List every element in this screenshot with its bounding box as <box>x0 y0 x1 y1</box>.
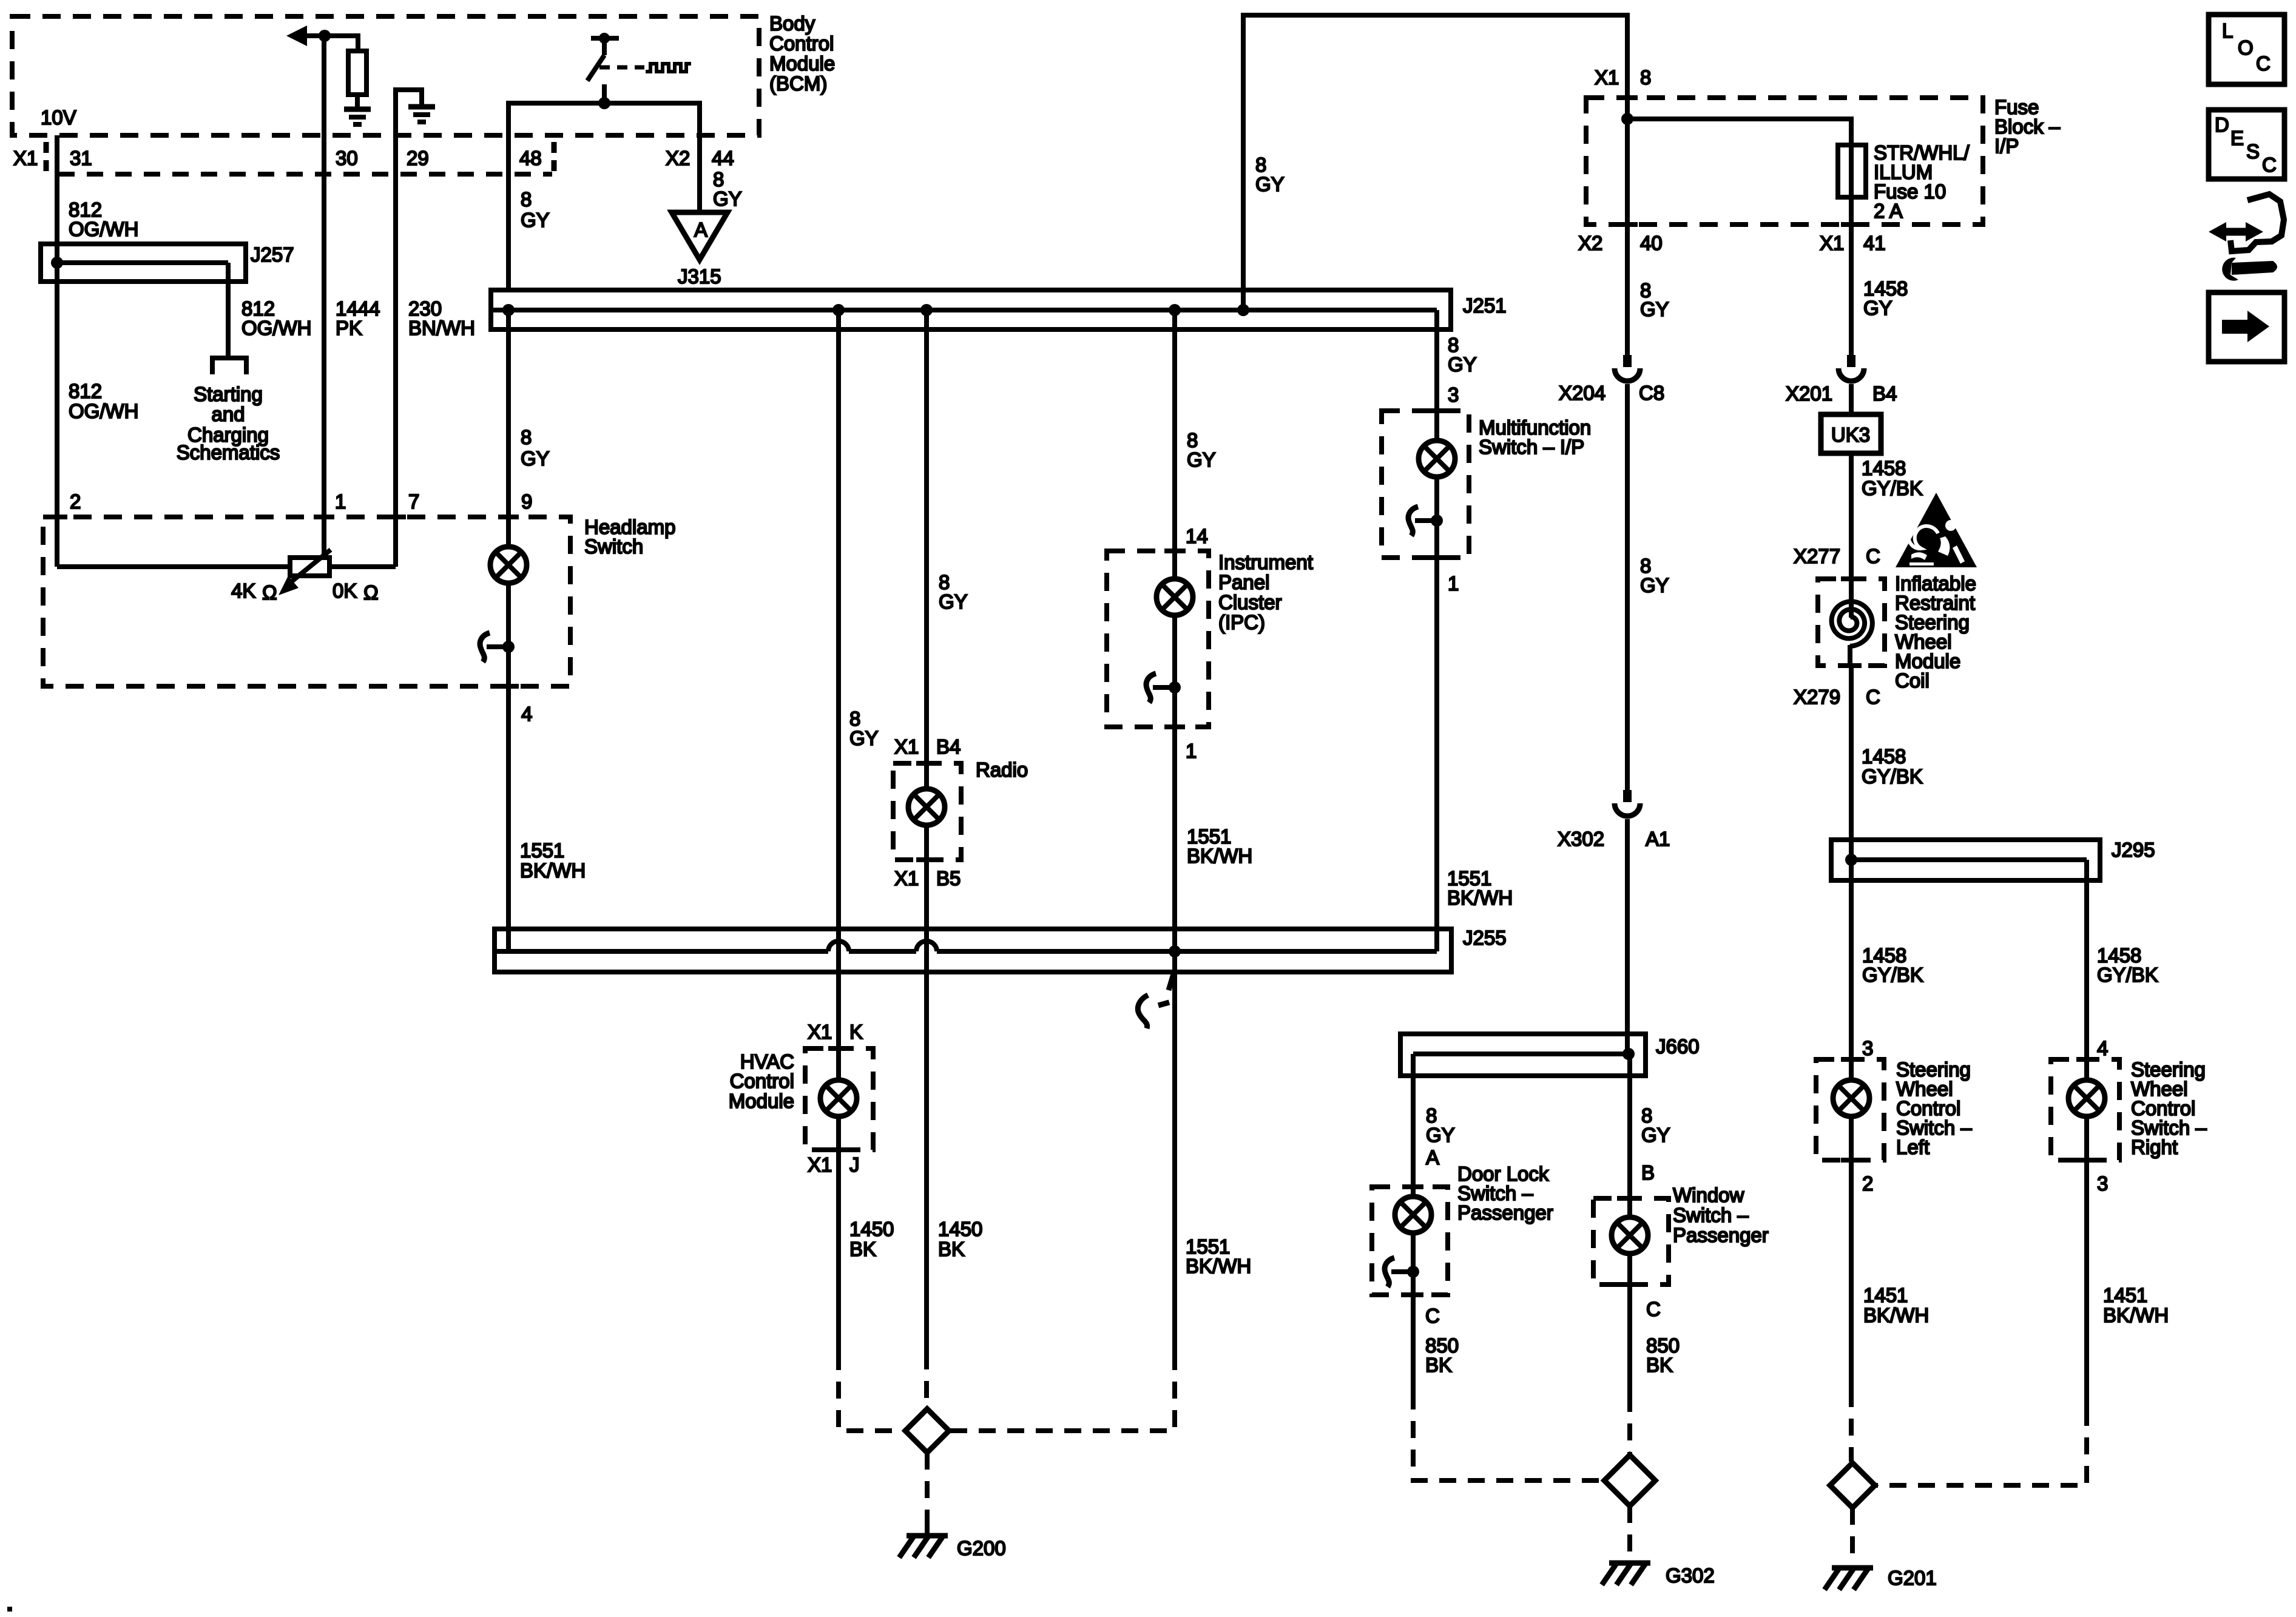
svg-text:GY: GY <box>521 447 550 470</box>
svg-text:GY/BK: GY/BK <box>1862 765 1923 788</box>
off-page bracket starting and charging <box>212 358 246 374</box>
svg-text:GY/BK: GY/BK <box>2097 964 2158 986</box>
svg-text:C: C <box>1425 1305 1440 1327</box>
dashed wire radio to G200 <box>924 1352 929 1408</box>
wire J251 to HVAC <box>836 310 841 1048</box>
wire label 1458 GY/BK lower <box>1862 745 1923 788</box>
icon repair jumper arrow and wrench <box>2209 194 2284 281</box>
svg-text:GY: GY <box>1640 574 1669 596</box>
label coil <box>1895 572 1976 692</box>
switch contact IPC <box>1146 673 1181 703</box>
wire label 230 BN/WH <box>408 297 475 339</box>
splice pack J251 <box>491 290 1451 329</box>
dashed wire HVAC to G200 <box>839 1353 904 1431</box>
HVAC pin labels X1 J <box>808 1153 860 1176</box>
svg-text:31: 31 <box>70 147 92 169</box>
pin ticks multifunction box <box>1427 411 1447 558</box>
svg-text:Switch: Switch <box>584 535 643 558</box>
svg-text:1458: 1458 <box>1862 457 1906 479</box>
svg-text:3: 3 <box>1448 383 1459 406</box>
svg-text:1458: 1458 <box>1862 745 1906 768</box>
wire fuse to X1 41 <box>1849 197 1854 355</box>
wire label 8 GY pin 48 <box>521 188 550 231</box>
svg-text:1451: 1451 <box>1863 1284 1908 1306</box>
icon DESC box <box>2209 110 2284 179</box>
svg-text:UK3: UK3 <box>1831 424 1870 446</box>
switch in BCM <box>587 33 619 103</box>
svg-text:GY: GY <box>713 187 742 210</box>
wire pin 29 to ground <box>396 90 422 174</box>
svg-text:1451: 1451 <box>2103 1284 2147 1306</box>
wire J660 to window switch <box>1625 1034 1630 1054</box>
Steering Wheel Control Switch Left dashed box <box>1816 1059 1884 1160</box>
ground in BCM pin 29 <box>408 107 435 122</box>
svg-text:4: 4 <box>2097 1037 2108 1059</box>
svg-text:(IPC): (IPC) <box>1218 611 1265 633</box>
svg-text:X1: X1 <box>808 1021 832 1043</box>
svg-text:C: C <box>1866 686 1880 708</box>
label Starting and Charging Schematics <box>177 383 280 464</box>
dashed wire IPC 1551 to G200 <box>950 1353 1175 1431</box>
wire resistor to ground <box>355 95 360 108</box>
wire potentiometer track <box>57 564 396 569</box>
wire resistor feed <box>356 33 360 51</box>
wire fuse block internal <box>1625 98 1630 224</box>
pin ticks IPC box <box>1164 551 1185 727</box>
wire label 8 GY window <box>1641 1104 1670 1146</box>
svg-text:1450: 1450 <box>849 1218 894 1240</box>
HVAC Control Module dashed box <box>805 1048 873 1150</box>
wire stub ground G200 <box>925 1522 930 1534</box>
lamp steering right <box>2068 1080 2105 1116</box>
svg-text:GY: GY <box>1640 298 1669 320</box>
lamp radio illumination <box>908 789 945 825</box>
splice contact hook under J255 <box>1138 972 1174 1028</box>
pin ticks headlamp box top <box>47 517 519 686</box>
wire pin 29 to headlamp pin 7 <box>393 174 398 567</box>
splice diamond G201 <box>1830 1463 1875 1508</box>
dashed wire window to G302 <box>1627 1395 1632 1454</box>
svg-text:812: 812 <box>69 380 102 402</box>
wire multifunction feed from J251 <box>1434 329 1439 411</box>
svg-text:GY: GY <box>849 727 879 749</box>
svg-text:BK/WH: BK/WH <box>1187 845 1252 867</box>
svg-text:K: K <box>849 1021 863 1043</box>
svg-text:Starting: Starting <box>194 383 263 405</box>
wire to pin 48 <box>506 101 511 289</box>
svg-text:Passenger: Passenger <box>1457 1201 1553 1224</box>
svg-text:Control: Control <box>730 1070 794 1092</box>
dashed wire G302 to ground <box>1627 1506 1632 1555</box>
chassis ground G302 <box>1602 1562 1650 1585</box>
svg-text:Ω: Ω <box>363 581 379 604</box>
Inflatable Restraint Steering Wheel Module Coil dashed box <box>1818 579 1885 666</box>
wire steering left stubs <box>1849 1059 1854 1080</box>
wire to fuse <box>1627 119 1851 145</box>
wire label 850 BK door lock <box>1425 1334 1459 1376</box>
wire lamp to contact <box>506 583 511 686</box>
splice pack J257 <box>41 244 246 282</box>
splice pack J255 <box>495 929 1451 972</box>
wire J660 to door lock switch <box>1411 1076 1416 1187</box>
wire label 1444 PK <box>336 297 380 339</box>
svg-text:X1: X1 <box>13 147 38 169</box>
svg-text:BN/WH: BN/WH <box>408 317 475 339</box>
svg-text:J: J <box>849 1153 860 1176</box>
node J660 window wire <box>1622 1048 1635 1060</box>
Multifunction Switch dashed box <box>1382 411 1469 558</box>
Window Switch dashed box <box>1593 1198 1669 1284</box>
wire window stubs <box>1627 1198 1632 1217</box>
svg-text:GY/BK: GY/BK <box>1862 964 1923 986</box>
wire to pin 44 <box>697 101 702 212</box>
svg-text:A1: A1 <box>1646 828 1670 850</box>
page corner dot <box>7 1607 12 1612</box>
label Window Switch Passenger <box>1673 1184 1769 1246</box>
svg-text:X277: X277 <box>1794 545 1840 567</box>
labels X302 A1 <box>1558 828 1670 850</box>
svg-text:2: 2 <box>70 490 81 513</box>
svg-text:Control: Control <box>769 32 834 55</box>
icon forward arrow box <box>2209 292 2284 362</box>
svg-text:GY: GY <box>939 590 968 613</box>
wire J295 to left steering switch <box>1849 860 1854 1059</box>
svg-text:GY: GY <box>1255 173 1285 195</box>
svg-text:X279: X279 <box>1794 686 1840 708</box>
svg-text:OG/WH: OG/WH <box>241 317 311 339</box>
svg-text:48: 48 <box>519 147 542 169</box>
label 0K ohm <box>333 579 379 604</box>
svg-text:and: and <box>211 403 245 425</box>
headlamp pin labels 2 1 7 9 <box>70 490 532 513</box>
svg-text:X201: X201 <box>1786 382 1832 405</box>
connector row dashed line <box>58 172 552 177</box>
svg-text:Left: Left <box>1896 1136 1930 1158</box>
svg-text:8: 8 <box>1640 66 1651 89</box>
wire label 812 OG/WH lower <box>69 380 138 422</box>
pin ticks window box <box>1617 1198 1638 1284</box>
resistor in BCM <box>348 51 366 95</box>
svg-text:O: O <box>2238 36 2254 59</box>
label steering left <box>1896 1058 1972 1158</box>
node J251 pin48 wire <box>502 304 515 316</box>
svg-text:GY: GY <box>521 209 550 231</box>
svg-text:X1: X1 <box>1595 66 1619 89</box>
pin ticks radio box <box>916 763 937 860</box>
svg-text:Switch –: Switch – <box>1673 1204 1749 1226</box>
connector row X1 labels <box>13 147 734 169</box>
wire door lock C to G302 <box>1411 1295 1416 1393</box>
svg-text:1450: 1450 <box>938 1218 982 1240</box>
inline connector X302 A1 <box>1615 790 1640 816</box>
wire J251 to IPC <box>1172 310 1177 551</box>
node J257 junction <box>51 257 63 269</box>
connector UK3 box <box>1821 414 1881 453</box>
dashed wire G200 diamond to ground <box>925 1453 930 1528</box>
HVAC pin labels X1 K <box>808 1021 863 1043</box>
wire label 1551 BK/WH multifunction <box>1447 867 1513 909</box>
svg-text:1: 1 <box>1186 740 1197 762</box>
wire window C to G302 <box>1627 1284 1632 1395</box>
svg-text:J255: J255 <box>1463 927 1507 949</box>
svg-text:BK: BK <box>1425 1354 1452 1376</box>
svg-text:9: 9 <box>521 490 532 513</box>
svg-text:Coil: Coil <box>1895 669 1930 692</box>
node fuse feed junction <box>1621 113 1633 125</box>
svg-text:J257: J257 <box>251 243 294 266</box>
Headlamp Switch dashed box <box>43 517 570 686</box>
fuse STR/WHL/ILLUM 2A <box>1838 145 1866 197</box>
wire coil to J295 <box>1849 666 1854 860</box>
svg-text:B4: B4 <box>936 735 961 758</box>
label Multifunction Switch I/P <box>1479 416 1591 458</box>
label 4K ohm <box>231 579 277 604</box>
wire label 8 GY HVAC <box>849 707 879 749</box>
chassis ground G200 <box>899 1534 948 1558</box>
wire label 812 OG/WH right <box>241 297 311 339</box>
Fuse Block I/P dashed box <box>1586 98 1983 224</box>
wire label 8 GY below X2 40 <box>1640 279 1669 320</box>
wire J251 to radio <box>924 310 929 763</box>
svg-text:X204: X204 <box>1559 382 1606 404</box>
label steering right <box>2131 1058 2207 1158</box>
wire IPC lamp stubs <box>1172 551 1177 579</box>
node J251 IPC tap <box>1169 304 1181 316</box>
svg-text:Right: Right <box>2131 1136 2178 1158</box>
radio pin labels X1 B4 <box>894 735 961 758</box>
wire label 8 GY pin 44 <box>713 168 742 210</box>
svg-text:C8: C8 <box>1639 382 1664 404</box>
svg-text:C: C <box>2262 154 2277 176</box>
svg-text:Ω: Ω <box>262 581 277 604</box>
Radio dashed box <box>893 763 961 860</box>
dashed wire G201 to ground <box>1850 1508 1855 1559</box>
dashed wire right steering to G201 <box>1876 1409 2087 1485</box>
pin ticks HVAC box <box>828 1048 849 1150</box>
svg-text:I/P: I/P <box>1994 135 2019 157</box>
inline connector X201 B4 <box>1838 355 1864 381</box>
svg-text:10V: 10V <box>41 106 76 129</box>
fuse block pin labels X1 8 <box>1595 66 1651 89</box>
lamp IPC illumination <box>1156 579 1193 615</box>
radio pin labels X1 B5 <box>894 867 961 890</box>
svg-text:Window: Window <box>1673 1184 1744 1206</box>
wire multifunction pin 1 to J255 right end <box>1434 558 1439 951</box>
svg-text:BK/WH: BK/WH <box>1447 886 1513 909</box>
wire label 1451 BK/WH left <box>1863 1284 1929 1326</box>
svg-text:OG/WH: OG/WH <box>69 400 138 422</box>
Body Control Module (BCM) dashed box <box>12 16 759 135</box>
wire 812 OG/WH to starting schematics <box>226 279 231 356</box>
wire pin 30 to headlamp pin 1 <box>322 36 326 558</box>
svg-text:GY: GY <box>1187 448 1216 471</box>
splice diamond G200 <box>905 1409 949 1453</box>
wire multifunction lamp stubs <box>1434 411 1439 441</box>
svg-text:BK: BK <box>938 1238 965 1260</box>
svg-text:Schematics: Schematics <box>177 441 280 464</box>
node J251 riser tap <box>1237 304 1249 316</box>
svg-text:1551: 1551 <box>520 839 564 862</box>
svg-text:14: 14 <box>1186 525 1208 547</box>
wire X302 to J660 <box>1625 819 1630 1034</box>
svg-text:Module: Module <box>769 52 835 75</box>
svg-text:44: 44 <box>712 147 734 169</box>
connector row separator dashes <box>44 142 49 172</box>
svg-text:C: C <box>1646 1298 1661 1320</box>
svg-text:BK: BK <box>849 1238 876 1260</box>
label Headlamp Switch <box>584 516 675 558</box>
svg-text:L: L <box>2222 19 2233 42</box>
svg-text:G200: G200 <box>957 1537 1006 1559</box>
fuse block pin labels X1 41 <box>1820 232 1886 254</box>
wire label 8 GY above pin 9 <box>521 426 550 470</box>
svg-text:Cluster: Cluster <box>1218 591 1282 613</box>
wire door lock stubs <box>1411 1187 1416 1197</box>
dashed wire door lock to G302 <box>1413 1393 1603 1480</box>
wire label 1551 BK/WH below J255 <box>1186 1235 1251 1277</box>
wire label 8 GY above X302 <box>1640 555 1669 596</box>
svg-text:8: 8 <box>521 426 532 448</box>
node switch output <box>598 97 610 109</box>
wire arrow to headlamp driver <box>286 25 358 46</box>
coil pin labels X277 C <box>1794 545 1880 567</box>
svg-text:OG/WH: OG/WH <box>69 218 138 240</box>
switch contact multifunction <box>1408 507 1443 536</box>
svg-text:J295: J295 <box>2112 839 2155 861</box>
switch contact headlamp <box>480 633 515 662</box>
labels X204 C8 <box>1559 382 1664 404</box>
wire label 812 OG/WH upper <box>69 198 138 240</box>
node J255 IPC wire <box>1169 945 1181 957</box>
chassis ground G201 <box>1825 1567 1873 1590</box>
coil pin labels X279 C <box>1794 686 1880 708</box>
wire UK3 to coil <box>1849 453 1854 618</box>
label Fuse Block I/P <box>1994 96 2061 157</box>
wire label 8 GY IPC <box>1187 429 1216 471</box>
svg-text:(BCM): (BCM) <box>769 72 827 95</box>
wire label 8 GY radio <box>939 571 968 613</box>
svg-text:X1: X1 <box>1820 232 1844 254</box>
svg-text:29: 29 <box>407 147 429 169</box>
svg-text:J251: J251 <box>1463 294 1507 317</box>
wire label 1450 BK radio <box>938 1218 982 1260</box>
svg-text:X1: X1 <box>894 867 919 890</box>
node J251 HVAC tap <box>832 304 845 316</box>
switch contact door lock <box>1385 1258 1419 1287</box>
svg-text:BK: BK <box>1646 1354 1673 1376</box>
svg-text:7: 7 <box>408 490 419 513</box>
svg-text:8: 8 <box>521 188 532 211</box>
svg-text:GY/BK: GY/BK <box>1862 477 1923 499</box>
pin ticks steering right box <box>2076 1059 2097 1160</box>
label Door Lock Switch Passenger <box>1457 1163 1553 1224</box>
pin ticks coil box <box>1841 579 1862 666</box>
wire radio lamp stubs <box>924 763 929 789</box>
pin tick fuse block top <box>1617 95 1638 100</box>
svg-text:B4: B4 <box>1872 382 1897 405</box>
svg-text:X2: X2 <box>666 147 690 169</box>
pulse waveform symbol <box>646 64 691 72</box>
BCM label <box>769 12 835 95</box>
off-page triangle connector A (J315) <box>672 212 728 260</box>
splice pack J660 <box>1400 1034 1646 1076</box>
wire pin 31 to J257 to headlamp pin 2 <box>55 135 59 567</box>
potentiometer headlamp dimmer <box>279 550 331 595</box>
clockspring coil spiral <box>1832 601 1872 646</box>
svg-text:S: S <box>2246 140 2260 163</box>
lamp door lock illumination <box>1395 1197 1431 1233</box>
svg-text:Instrument: Instrument <box>1218 551 1313 573</box>
ground in BCM under resistor <box>344 109 371 124</box>
svg-text:J315: J315 <box>678 265 721 288</box>
svg-text:X302: X302 <box>1558 828 1604 850</box>
svg-text:1: 1 <box>335 490 346 513</box>
wire label 1451 BK/WH right <box>2103 1284 2169 1326</box>
airbag warning triangle <box>1896 493 1977 567</box>
icon LOC box <box>2209 15 2284 84</box>
svg-text:Module: Module <box>729 1090 794 1112</box>
label STR/WHL/ILLUM Fuse 10 2A <box>1874 141 1970 222</box>
wire HVAC lamp stubs <box>836 1048 841 1080</box>
svg-text:0K: 0K <box>333 579 357 602</box>
svg-text:30: 30 <box>336 147 358 169</box>
wire X2 40 down <box>1625 224 1630 355</box>
svg-text:BK/WH: BK/WH <box>2103 1304 2169 1326</box>
svg-text:J660: J660 <box>1656 1035 1700 1058</box>
svg-text:3: 3 <box>1862 1037 1873 1059</box>
switch actuation dashed link <box>599 66 644 70</box>
wire IPC pin 1 to J255 <box>1172 727 1177 1353</box>
wire label 1458 GY/BK right branch <box>2097 944 2158 986</box>
label HVAC Control Module <box>729 1050 794 1112</box>
inline connector X204 C8 <box>1615 355 1640 381</box>
svg-text:A: A <box>694 218 707 241</box>
svg-text:GY: GY <box>1448 353 1477 376</box>
fuse block pin labels X2 40 <box>1578 232 1663 254</box>
node J295 junction <box>1845 854 1857 866</box>
svg-text:X1: X1 <box>808 1153 832 1176</box>
svg-text:GY: GY <box>1641 1124 1670 1146</box>
svg-text:X2: X2 <box>1578 232 1602 254</box>
svg-text:Radio: Radio <box>976 758 1028 781</box>
Door Lock Switch dashed box <box>1372 1187 1448 1295</box>
svg-text:1: 1 <box>1448 572 1459 595</box>
svg-text:GY: GY <box>1863 297 1893 319</box>
svg-text:2 A: 2 A <box>1874 200 1903 222</box>
svg-text:2: 2 <box>1862 1172 1873 1195</box>
svg-text:E: E <box>2230 127 2244 149</box>
svg-text:BK/WH: BK/WH <box>520 859 586 882</box>
wire label 8 GY riser <box>1255 154 1285 195</box>
splice diamond G302 <box>1604 1455 1655 1506</box>
splice pack J295 <box>1831 840 2100 880</box>
svg-text:C: C <box>2256 52 2271 75</box>
wire riser J251 to fuse block top run <box>1243 15 1627 310</box>
wire B4 to UK3 <box>1849 384 1854 414</box>
svg-text:4: 4 <box>521 703 532 725</box>
wire pin 48 bus to headlamp pin 9 <box>506 310 511 545</box>
svg-text:X1: X1 <box>894 735 919 758</box>
wire BCM switch output bus <box>508 101 700 106</box>
wire label 1450 BK HVAC <box>849 1218 894 1260</box>
lamp multifunction illumination <box>1419 441 1455 477</box>
svg-text:Body: Body <box>769 12 815 35</box>
wire steering right stubs <box>2084 1059 2089 1080</box>
svg-text:40: 40 <box>1640 232 1663 254</box>
wire label 1551 BK/WH IPC <box>1187 825 1252 867</box>
lamp window switch illumination <box>1612 1217 1648 1254</box>
svg-text:D: D <box>2215 113 2229 136</box>
